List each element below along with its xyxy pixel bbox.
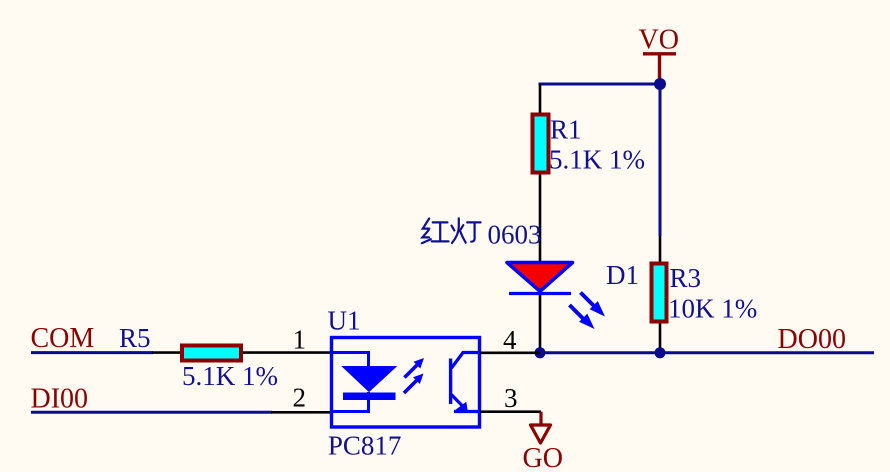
svg-text:5.1K 1%: 5.1K 1%	[549, 145, 645, 175]
internal light arrow 1	[405, 365, 417, 377]
svg-text:4: 4	[503, 325, 517, 355]
light arrow 2	[570, 305, 595, 329]
phototransistor	[449, 359, 452, 405]
hanzi deng	[452, 218, 466, 243]
pin 3 wire	[480, 410, 541, 413]
resistor R1	[533, 84, 646, 262]
junction at R3 column	[655, 347, 666, 358]
internal LED anode/cathode wiring	[333, 353, 369, 412]
resistor R3	[652, 236, 758, 353]
wire DI00	[31, 411, 272, 414]
svg-text:3: 3	[504, 383, 518, 413]
light arrow 1	[581, 293, 606, 317]
svg-text:DO00: DO00	[778, 324, 846, 355]
wire right vertical	[659, 84, 662, 236]
optocoupler U1	[328, 305, 480, 460]
internal LED cathode bar	[343, 393, 396, 401]
svg-text:2: 2	[293, 383, 307, 413]
svg-text:VO: VO	[639, 24, 679, 55]
pin 4 wire	[480, 351, 540, 354]
svg-text:1: 1	[293, 324, 307, 354]
label 红灯 0603	[422, 218, 542, 249]
junction at LED column	[535, 347, 546, 358]
pin 2 wire	[271, 411, 331, 414]
internal light arrow 2	[404, 381, 416, 393]
LED D1	[507, 260, 639, 353]
svg-text:R1: R1	[550, 114, 582, 144]
svg-text:GO: GO	[523, 443, 563, 472]
ground GO	[523, 412, 563, 472]
junction top	[654, 78, 666, 90]
wire COM	[31, 351, 153, 354]
svg-text:D1: D1	[606, 260, 639, 290]
svg-text:COM: COM	[31, 323, 95, 354]
hanzi hong	[422, 219, 431, 244]
svg-text:U1: U1	[328, 305, 361, 335]
wire top horizontal	[539, 83, 661, 86]
svg-text:0603: 0603	[488, 219, 542, 249]
resistor R5	[119, 323, 331, 391]
svg-text:R5: R5	[119, 323, 151, 353]
svg-text:R3: R3	[670, 263, 702, 293]
wire output to DO00	[540, 351, 874, 354]
svg-text:10K 1%: 10K 1%	[668, 294, 757, 324]
svg-text:DI00: DI00	[31, 383, 89, 414]
power port VO	[639, 24, 679, 79]
svg-text:5.1K 1%: 5.1K 1%	[182, 361, 278, 391]
svg-text:PC817: PC817	[328, 431, 402, 461]
internal LED triangle	[343, 367, 397, 392]
